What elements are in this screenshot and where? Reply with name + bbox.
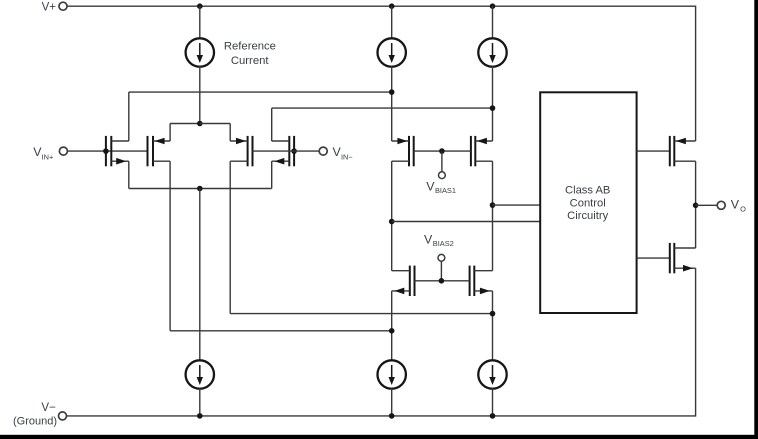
wire Q1 drain up xyxy=(128,92,130,141)
node NMOS tail xyxy=(197,186,203,192)
node top rail / reference current column xyxy=(197,3,203,9)
svg-text:Reference: Reference xyxy=(224,40,276,52)
wire to class AB box upper input xyxy=(493,204,541,206)
svg-text:V: V xyxy=(424,233,433,247)
node top rail / second current source column xyxy=(389,3,395,9)
label VBIAS1 xyxy=(426,180,456,195)
terminal VIN- xyxy=(319,145,353,161)
transistor Q1 input NMOS outer-left xyxy=(106,136,129,166)
svg-text:V+: V+ xyxy=(42,1,57,13)
node top rail / third current source column xyxy=(490,3,496,9)
wire Q4 source down xyxy=(271,161,273,188)
wire VBIAS2 stub xyxy=(440,261,442,281)
transistor Q3 input PMOS inner-right xyxy=(230,136,252,166)
wire I6 to ground rail xyxy=(492,388,494,416)
wire top rail right drop to output PMOS xyxy=(695,6,697,142)
wire I2 to upper cascode left xyxy=(391,66,393,141)
wire output stub xyxy=(696,204,718,206)
wire Q9 drain to output node xyxy=(695,161,697,248)
transistor Q4 input NMOS outer-right xyxy=(272,136,294,166)
border right black bar xyxy=(754,0,758,439)
wire Q2 drain down (folded node left) xyxy=(170,161,392,331)
terminal VBIAS2 xyxy=(438,254,445,261)
label VBIAS2 xyxy=(424,233,454,248)
transistor Q10 output NMOS xyxy=(670,243,696,273)
wire Q4 drain up xyxy=(271,108,273,141)
node output xyxy=(693,203,699,209)
wire B outer-right drain to I3 column xyxy=(272,107,493,109)
svg-text:V: V xyxy=(426,180,435,194)
current sink I6 xyxy=(478,360,506,388)
node VBIAS1 gates xyxy=(439,148,445,154)
border bottom black bar xyxy=(0,435,758,439)
terminal VO xyxy=(717,197,746,213)
wire box to Q10 gate xyxy=(637,257,670,259)
wire Q3 source up to tail xyxy=(229,124,231,142)
wire VIN- to input gates xyxy=(253,150,320,152)
wire I4 to ground rail xyxy=(199,388,201,416)
svg-text:Control: Control xyxy=(570,197,606,209)
transistor Q9 output PMOS xyxy=(670,136,696,166)
svg-text:Current: Current xyxy=(231,55,270,67)
wire tail to Q3 xyxy=(200,123,230,125)
wire box to Q9 gate xyxy=(637,150,670,152)
svg-text:BIAS2: BIAS2 xyxy=(433,239,454,248)
wire Q5 drain column down xyxy=(391,161,393,271)
svg-text:(Ground): (Ground) xyxy=(13,416,57,428)
wire ground rail xyxy=(67,415,696,417)
svg-text:O: O xyxy=(740,204,746,213)
current source I1 (reference current) xyxy=(186,38,214,66)
transistor Q7 lower cascode NMOS left xyxy=(392,266,415,296)
wire NMOS tail down to sink I4 xyxy=(199,189,201,362)
terminal VBIAS1 xyxy=(439,172,446,179)
label Reference Current xyxy=(224,40,276,67)
node folded input left xyxy=(389,328,395,334)
wire Q8 source down xyxy=(492,291,494,361)
wire Q7 Q8 gates to VBIAS2 xyxy=(415,280,470,282)
wire NMOS tail xyxy=(129,188,272,190)
terminal V- (Ground) xyxy=(13,402,67,428)
svg-text:V: V xyxy=(731,197,740,211)
svg-text:IN−: IN− xyxy=(341,152,353,161)
transistor Q5 upper cascode PMOS left xyxy=(392,136,414,166)
wire rail to current source I3 xyxy=(492,6,494,39)
node VIN- at outer-right gate xyxy=(291,148,297,154)
wire VIN+ to input gates xyxy=(67,150,147,152)
wire Q6 drain column down xyxy=(492,161,494,271)
svg-text:IN+: IN+ xyxy=(42,152,54,161)
svg-text:Class AB: Class AB xyxy=(565,184,610,196)
wire Q10 source down to ground rail xyxy=(695,268,697,416)
current source I2 xyxy=(378,38,406,66)
current source I3 xyxy=(478,38,506,66)
wire rail to reference current source xyxy=(199,6,201,39)
transistor Q8 lower cascode NMOS right xyxy=(470,266,493,296)
svg-text:V−: V− xyxy=(41,402,56,414)
wire I3 to upper cascode right xyxy=(492,66,494,141)
transistor Q2 input PMOS inner-left xyxy=(148,136,171,166)
node PMOS tail xyxy=(197,121,203,127)
node class AB input left column xyxy=(389,219,395,225)
wire VBIAS1 stub xyxy=(441,151,443,172)
node VIN+ at outer-left gate xyxy=(103,148,109,154)
node ground rail I6 xyxy=(490,413,496,419)
wire Q3 drain down (folded node right) xyxy=(230,161,492,313)
current sink I5 xyxy=(378,360,406,388)
wire to class AB box lower input xyxy=(392,221,541,223)
block U1 Class AB Control Circuitry xyxy=(540,92,636,313)
node ground rail I5 xyxy=(389,413,395,419)
wire Q5 Q6 gates to VBIAS1 xyxy=(414,150,471,152)
node wire B / I3 column xyxy=(490,105,496,111)
wire Q1 source down xyxy=(128,161,130,188)
wire A outer-left drain to I2 column xyxy=(129,91,392,93)
transistor Q6 upper cascode PMOS right xyxy=(471,136,493,166)
node ground rail I4 xyxy=(197,413,203,419)
wire Q7 source down xyxy=(391,291,393,361)
wire rail to current source I2 xyxy=(391,6,393,39)
svg-text:Circuitry: Circuitry xyxy=(567,210,608,222)
wire Q2 source up to tail xyxy=(170,124,200,142)
node class AB input right column xyxy=(490,202,496,208)
wire I5 to ground rail xyxy=(391,388,393,416)
current sink I4 xyxy=(186,360,214,388)
node wire A / I2 column xyxy=(389,89,395,95)
node VBIAS2 gates xyxy=(439,278,445,284)
svg-text:BIAS1: BIAS1 xyxy=(435,186,456,195)
terminal VIN+ xyxy=(33,145,67,161)
V+ supply rail terminal xyxy=(42,1,67,13)
node folded input right xyxy=(490,311,496,317)
wire reference current to PMOS tail xyxy=(199,66,201,124)
wire V+ top rail xyxy=(67,5,695,7)
